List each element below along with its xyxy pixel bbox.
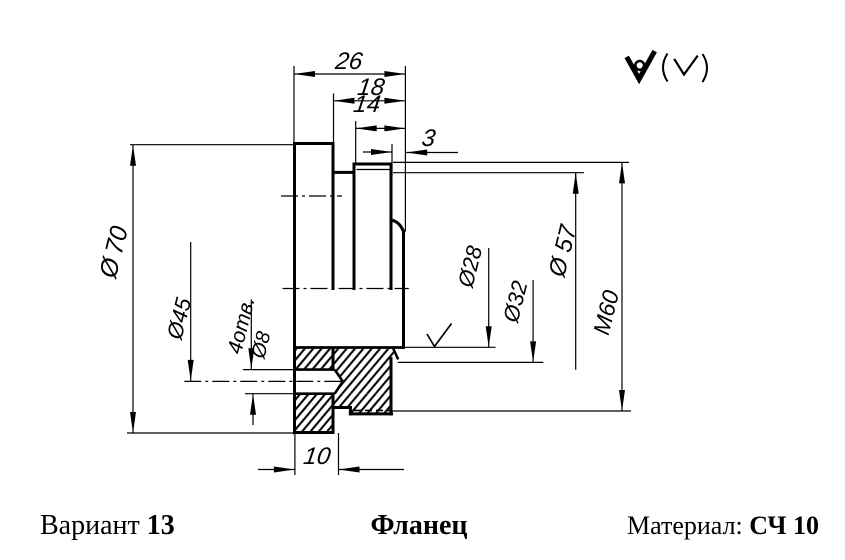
- svg-text:Ø 57: Ø 57: [543, 221, 582, 281]
- svg-text:M60: M60: [588, 287, 624, 337]
- svg-text:26: 26: [333, 48, 365, 75]
- svg-text:Ø28: Ø28: [453, 243, 488, 291]
- svg-text:Ø32: Ø32: [498, 278, 533, 325]
- svg-text:Вариант 13: Вариант 13: [40, 510, 175, 541]
- svg-text:10: 10: [302, 443, 333, 470]
- svg-text:14: 14: [352, 91, 382, 118]
- svg-text:Ø 70: Ø 70: [94, 223, 134, 282]
- svg-text:3: 3: [420, 125, 438, 152]
- svg-text:Фланец: Фланец: [370, 510, 467, 541]
- svg-text:Материал: СЧ 10: Материал: СЧ 10: [627, 511, 819, 540]
